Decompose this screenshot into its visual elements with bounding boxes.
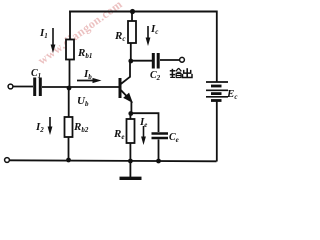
wire emitter to Ce branch [131, 113, 159, 132]
resistor Rb1 [66, 40, 74, 60]
wire right column top [216, 11, 218, 83]
wire Rb1 to base node [69, 60, 71, 89]
input terminal upper [8, 84, 13, 89]
wire input to C1 [13, 86, 33, 88]
resistor Rb2 [65, 117, 73, 137]
label I2 with arrow [35, 117, 52, 135]
capacitor Ce [152, 132, 179, 144]
output terminal [180, 57, 185, 62]
wire bottom rail [10, 160, 217, 161]
node base junction [67, 86, 72, 91]
node collector junction [128, 59, 133, 64]
label Ic with arrow [146, 23, 159, 46]
wire base node to Rb2 [68, 88, 70, 117]
wire emitter to Re [129, 114, 131, 120]
node top rail junction [130, 9, 135, 14]
node Re bottom junction [128, 159, 133, 164]
node Ce bottom junction [156, 159, 161, 164]
label I1 with arrow [39, 27, 55, 53]
label Ib with arrow [77, 68, 102, 83]
capacitor C1 [31, 68, 41, 96]
label output (hand-drawn CJK 输出) [170, 68, 192, 77]
wire Rc to top rail [131, 12, 133, 22]
wire right column bottom [216, 101, 218, 162]
resistor Rc [128, 21, 136, 43]
wire Rb2 to bottom rail [68, 137, 70, 160]
wire left column top (to Rb1) [69, 11, 71, 41]
ground [120, 161, 142, 178]
node Rb2 bottom junction [66, 158, 71, 163]
wire top rail [69, 11, 217, 13]
wire C1 to base [42, 86, 119, 88]
battery E [206, 82, 237, 101]
label Ie with arrow [139, 116, 147, 145]
input terminal lower [5, 158, 10, 163]
wire C2 to output [160, 59, 180, 61]
wire collector to Rc [130, 43, 132, 61]
wire Re to bottom rail [129, 143, 131, 161]
node emitter junction [128, 111, 133, 116]
wire collector to C2 [131, 60, 152, 62]
wire Ce to bottom rail [158, 140, 160, 162]
transistor Q1 [120, 61, 132, 114]
resistor Re [127, 119, 135, 143]
capacitor C2 [150, 53, 161, 82]
